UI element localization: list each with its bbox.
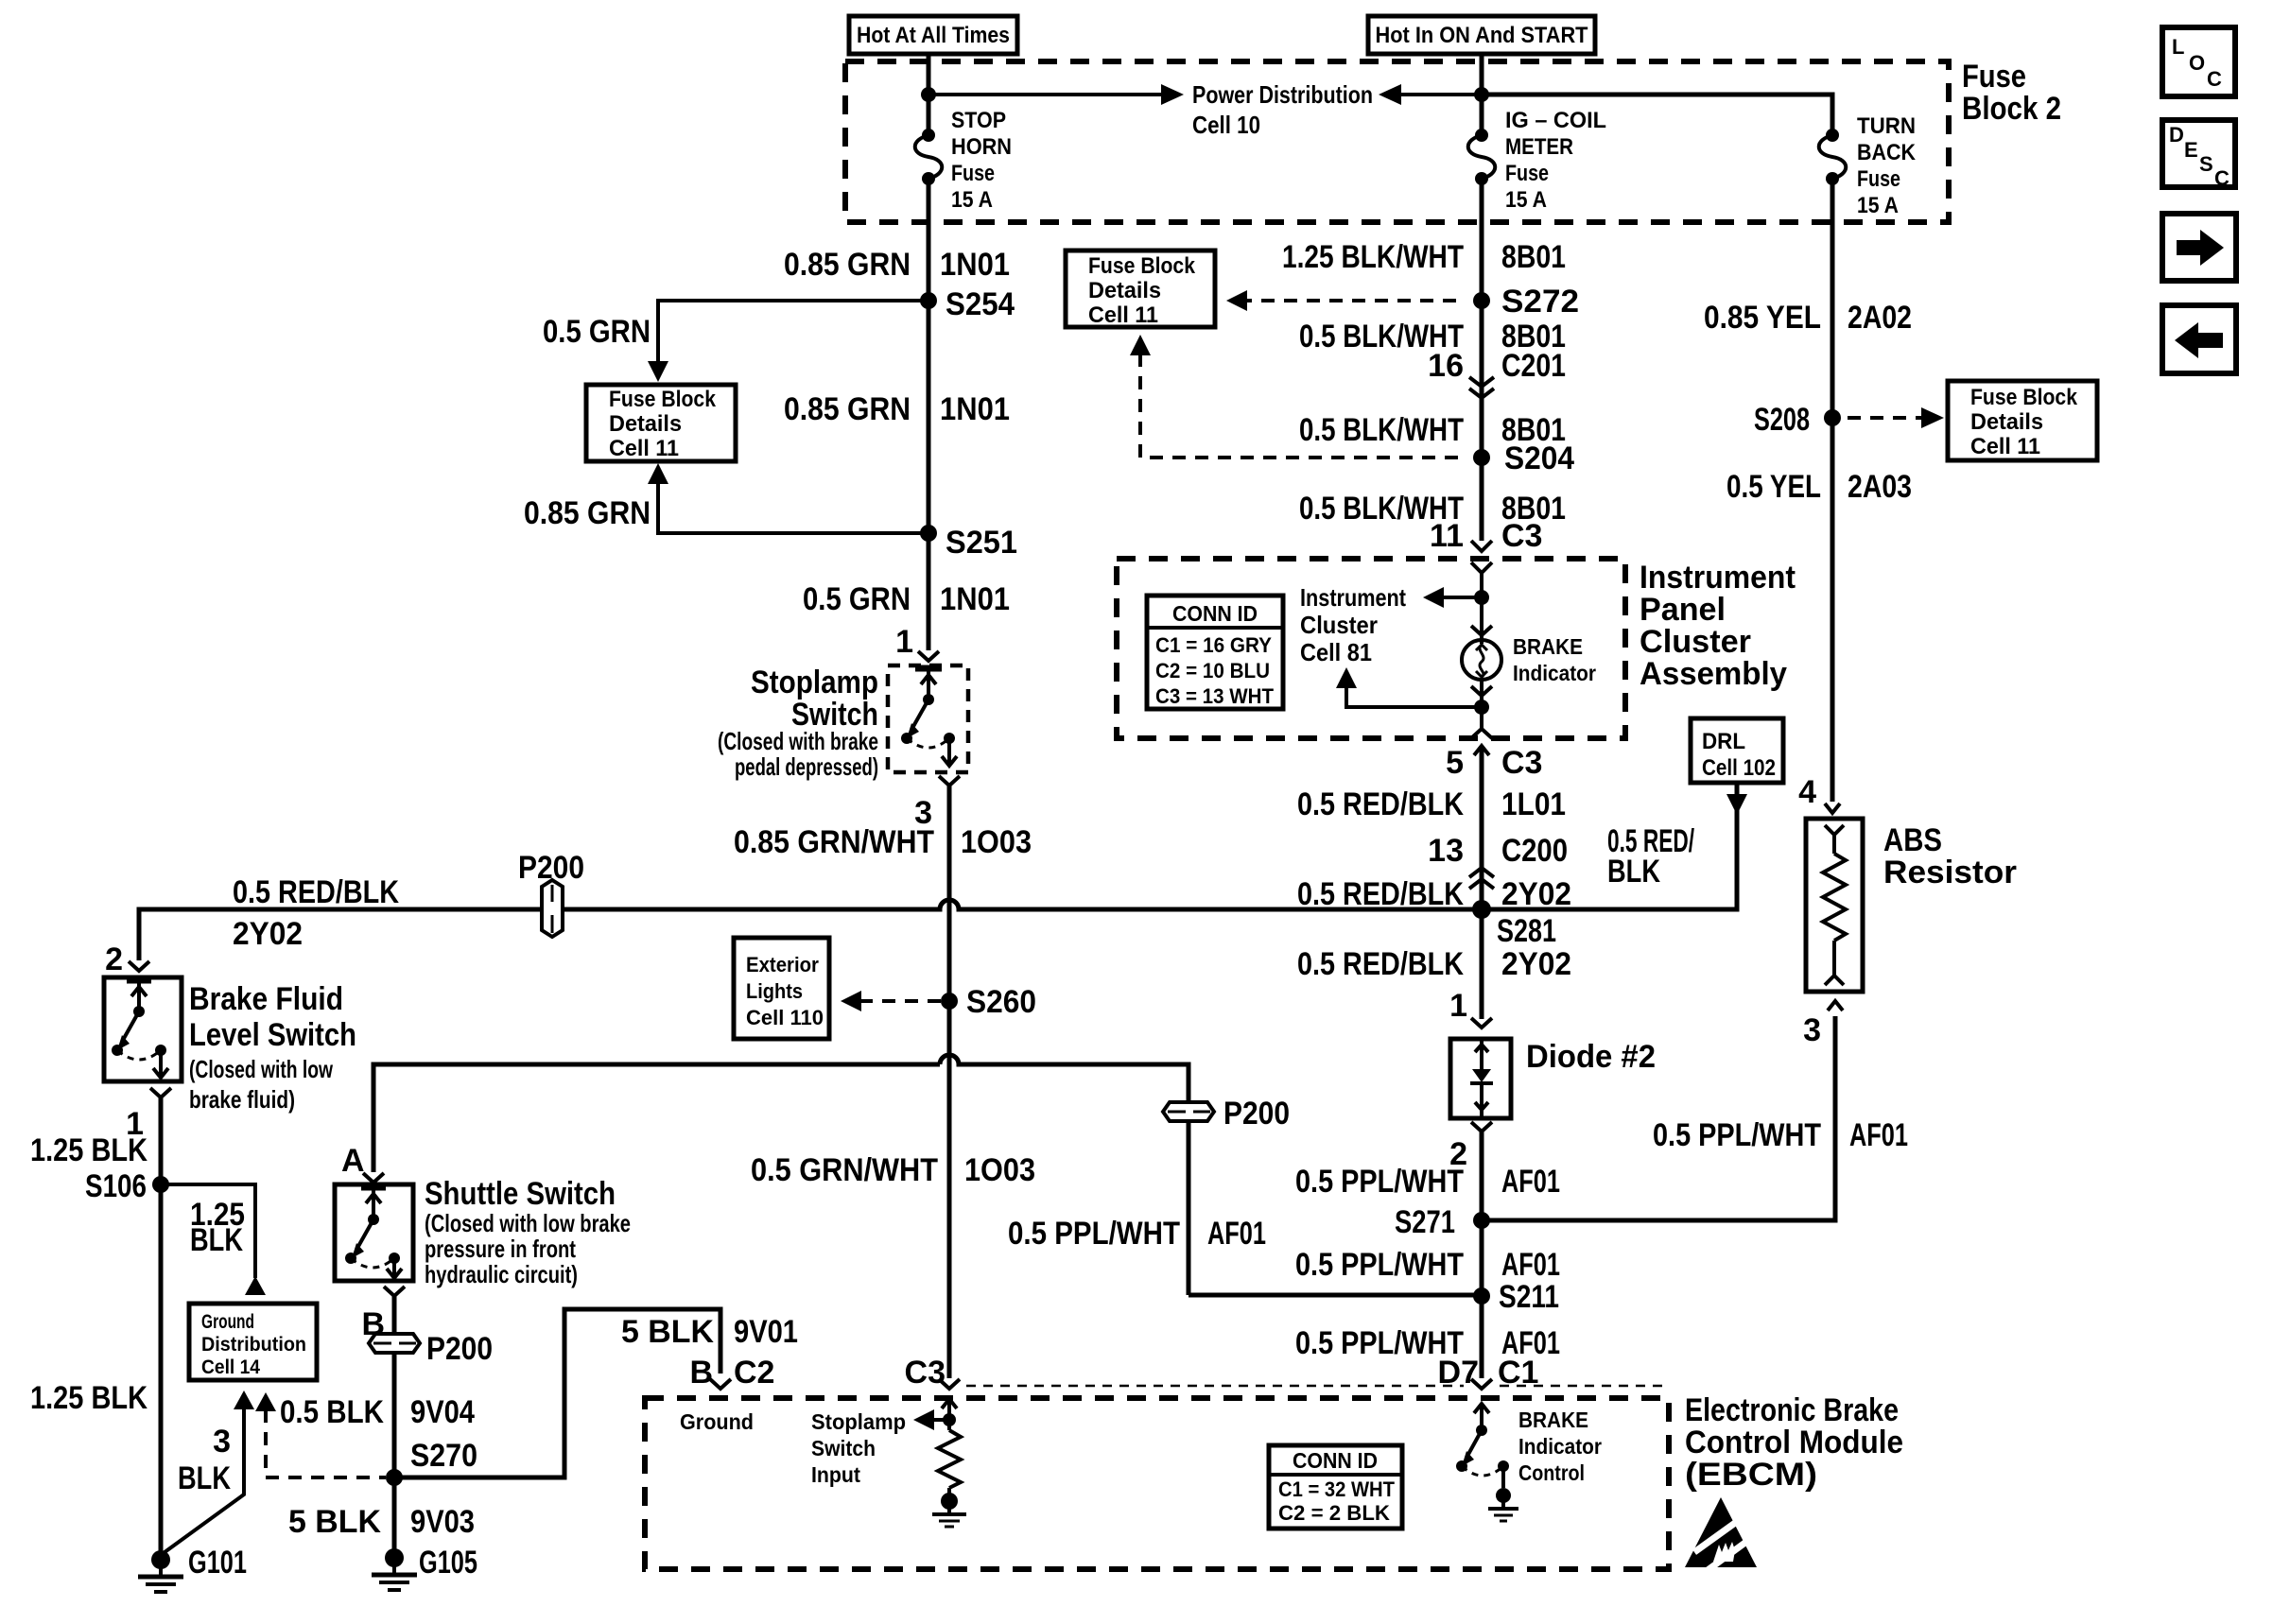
svg-text:1.25 BLK: 1.25 BLK — [30, 1380, 147, 1416]
svg-text:Instrument: Instrument — [1640, 560, 1796, 596]
connector D7 C1 at EBCM — [1438, 1355, 1539, 1391]
svg-text:Brake Fluid: Brake Fluid — [189, 981, 343, 1017]
label 0.5 YEL 2A03 — [1726, 469, 1912, 505]
svg-text:TURN: TURN — [1857, 113, 1916, 139]
node S211 — [1473, 1279, 1559, 1315]
svg-text:BRAKE: BRAKE — [1518, 1408, 1588, 1432]
icon box LOC — [2162, 27, 2235, 96]
wire: stoplamp switch to EBCM C3 (1O03) — [947, 786, 952, 1378]
svg-text:BLK: BLK — [1607, 854, 1660, 890]
svg-text:D: D — [2169, 123, 2184, 147]
reference box CONN ID (cluster) — [1147, 596, 1283, 709]
label 0.5 BLK 9V04 — [280, 1394, 475, 1430]
svg-text:0.85 GRN: 0.85 GRN — [784, 391, 911, 427]
label Power Distribution Cell 10 — [1192, 80, 1373, 139]
label 0.85 GRN 1N01 (between S254 S251) — [784, 391, 1010, 427]
node S106 — [85, 1168, 169, 1204]
wire: S271 branch to ABS resistor — [1482, 1016, 1835, 1220]
wire: S251 branch to Fuse Block Details — [648, 463, 928, 533]
svg-text:Block 2: Block 2 — [1962, 91, 2061, 127]
svg-text:Assembly: Assembly — [1640, 656, 1787, 692]
node S281 — [1472, 900, 1556, 949]
label 0.5 RED/BLK 2Y02 — [233, 874, 399, 952]
svg-text:P200: P200 — [426, 1331, 493, 1367]
fuse STOP HORN 15A — [915, 129, 943, 185]
svg-text:S: S — [2199, 152, 2213, 176]
dashed arrow S272 to Fuse Block Details — [1226, 290, 1456, 311]
svg-text:C1: C1 — [1498, 1355, 1538, 1391]
svg-text:0.85 GRN: 0.85 GRN — [524, 495, 651, 531]
svg-text:15 A: 15 A — [1505, 187, 1547, 213]
node S272 — [1473, 284, 1579, 320]
svg-text:(EBCM): (EBCM) — [1685, 1457, 1817, 1493]
svg-text:0.5 PPL/WHT: 0.5 PPL/WHT — [1295, 1247, 1464, 1283]
svg-text:Hot In ON And START: Hot In ON And START — [1376, 23, 1588, 48]
wire inside cluster — [1480, 573, 1484, 644]
wire: S254 branch to Fuse Block Details — [648, 301, 928, 382]
svg-text:0.5 BLK/WHT: 0.5 BLK/WHT — [1299, 412, 1464, 448]
svg-text:Fuse Block: Fuse Block — [609, 387, 717, 412]
wire: Hot At All Times feed — [927, 54, 931, 134]
svg-text:C2 = 10 BLU: C2 = 10 BLU — [1155, 659, 1270, 682]
svg-text:Control Module: Control Module — [1685, 1425, 1903, 1460]
label 0.5 RED/BLK 1L01 — [1297, 786, 1566, 822]
label IG-COIL METER Fuse 15 A — [1505, 108, 1606, 213]
fuse IG-COIL METER 15A — [1468, 129, 1496, 185]
svg-text:C2: C2 — [734, 1355, 774, 1391]
ground G101 — [138, 1545, 247, 1592]
wire: brake fluid switch to G101 (1.25 BLK) — [159, 1097, 164, 1555]
svg-text:1.25 BLK: 1.25 BLK — [30, 1132, 147, 1168]
label 0.5 PPL/WHT AF01 (P200 branch) — [1008, 1216, 1266, 1252]
node: branch to Power Distribution — [921, 87, 936, 102]
connector P200 inline (on horizontal wire) — [542, 880, 563, 937]
svg-text:Cell 81: Cell 81 — [1300, 638, 1372, 666]
svg-text:P200: P200 — [518, 850, 584, 886]
svg-text:0.5 GRN: 0.5 GRN — [543, 314, 651, 350]
svg-text:5: 5 — [1446, 745, 1464, 781]
label BRAKE Indicator — [1513, 634, 1596, 685]
svg-text:AF01: AF01 — [1849, 1117, 1908, 1153]
svg-text:1O03: 1O03 — [961, 824, 1032, 860]
pin 2 diode — [1449, 1122, 1492, 1172]
stoplamp switch input circuit — [913, 1399, 966, 1527]
wire hop over stoplamp wire and to P200 drop — [940, 1055, 1189, 1295]
svg-text:9V04: 9V04 — [410, 1394, 475, 1430]
label box Hot At All Times — [849, 16, 1017, 54]
svg-text:A: A — [341, 1143, 365, 1179]
svg-text:C201: C201 — [1501, 348, 1566, 384]
svg-text:2: 2 — [105, 942, 123, 977]
svg-text:1: 1 — [895, 624, 913, 660]
wire: main horizontal 0.5 RED/BLK 2Y02 — [139, 783, 1737, 960]
connector arrow below cluster pin 5 — [1474, 746, 1489, 1019]
svg-text:Fuse: Fuse — [1857, 166, 1900, 192]
label 0.5 BLK/WHT 8B01 — [1299, 412, 1566, 448]
label 0.5 GRN/WHT 1O03 — [751, 1152, 1035, 1188]
pin 2 brake fluid level switch — [105, 942, 149, 977]
connector C3 pin 11 — [1430, 518, 1542, 554]
svg-text:Shuttle Switch: Shuttle Switch — [425, 1176, 616, 1212]
svg-text:C3: C3 — [905, 1355, 946, 1391]
instrument panel cluster dashed box — [1117, 559, 1625, 738]
wire: S270 to EBCM B C2 (5 BLK 9V01) — [394, 1309, 720, 1477]
svg-text:9V01: 9V01 — [734, 1314, 798, 1350]
svg-text:CONN ID: CONN ID — [1293, 1448, 1378, 1473]
svg-text:BACK: BACK — [1857, 140, 1917, 165]
svg-text:16: 16 — [1428, 348, 1464, 384]
svg-text:Power Distribution: Power Distribution — [1192, 80, 1373, 109]
svg-text:S106: S106 — [85, 1168, 147, 1204]
svg-text:AF01: AF01 — [1207, 1216, 1266, 1252]
wire: STOP HORN fuse to stoplamp switch (1N01) — [927, 179, 931, 650]
label box Hot In ON And START — [1368, 16, 1595, 54]
svg-text:pressure in front: pressure in front — [425, 1235, 576, 1263]
svg-text:S281: S281 — [1497, 913, 1556, 949]
svg-text:15 A: 15 A — [951, 187, 993, 213]
reference box DRL Cell 102 — [1691, 718, 1783, 783]
label 0.5 BLK/WHT 8B01 — [1299, 491, 1566, 527]
svg-text:S211: S211 — [1499, 1279, 1559, 1315]
svg-text:C1 = 16 GRY: C1 = 16 GRY — [1155, 633, 1272, 657]
pin B shuttle switch — [361, 1287, 405, 1342]
wire: shuttle switch feed (A) — [373, 1064, 940, 1172]
arrow to Instrument Cluster text — [1423, 587, 1482, 608]
svg-text:0.5 RED/BLK: 0.5 RED/BLK — [1297, 946, 1464, 982]
wire: G101 to Ground Distribution (3 BLK) — [161, 1391, 254, 1555]
label 0.5 GRN 1N01 — [803, 581, 1010, 617]
svg-text:S271: S271 — [1395, 1204, 1455, 1240]
svg-text:Details: Details — [1088, 278, 1161, 303]
brake fluid level switch box — [104, 977, 182, 1081]
node S271 — [1395, 1204, 1490, 1240]
svg-text:Cluster: Cluster — [1300, 611, 1378, 639]
svg-text:L: L — [2172, 35, 2184, 59]
svg-text:P200: P200 — [1223, 1096, 1290, 1132]
icon box right arrow — [2162, 214, 2236, 281]
diode symbol — [1470, 1039, 1493, 1118]
label 3 BLK — [178, 1424, 231, 1496]
shuttle switch box — [335, 1184, 413, 1281]
svg-text:Indicator: Indicator — [1513, 661, 1596, 685]
svg-text:S251: S251 — [946, 525, 1017, 561]
label Instrument Cluster Cell 81 — [1300, 583, 1406, 666]
svg-text:Fuse Block: Fuse Block — [1970, 385, 2078, 410]
fuse block 2 dashed box — [845, 61, 1949, 222]
wire: feed to TURN BACK fuse — [1482, 95, 1832, 134]
label 0.85 GRN/WHT 1O03 — [734, 824, 1032, 860]
label 1.25 BLK/WHT 8B01 — [1282, 239, 1566, 275]
wire: from IG wire to Power Distribution arrow — [1401, 93, 1482, 96]
svg-text:AF01: AF01 — [1501, 1164, 1560, 1200]
svg-text:2Y02: 2Y02 — [233, 916, 303, 952]
svg-text:Ground: Ground — [680, 1409, 754, 1434]
shuttle switch internals — [345, 1187, 402, 1278]
svg-text:BRAKE: BRAKE — [1513, 634, 1583, 659]
svg-text:2Y02: 2Y02 — [1501, 946, 1571, 982]
svg-text:Cell 10: Cell 10 — [1192, 111, 1260, 139]
svg-text:1: 1 — [1449, 988, 1467, 1024]
svg-text:0.5 BLK: 0.5 BLK — [280, 1394, 384, 1430]
svg-text:(Closed with low: (Closed with low — [189, 1055, 334, 1083]
label Shuttle Switch — [425, 1176, 631, 1288]
svg-text:3: 3 — [213, 1424, 231, 1460]
wire: shuttle switch to G105 — [392, 1296, 397, 1553]
svg-text:Stoplamp: Stoplamp — [811, 1409, 906, 1434]
svg-text:1O03: 1O03 — [964, 1152, 1035, 1188]
svg-text:Diode #2: Diode #2 — [1526, 1039, 1656, 1075]
ground G105 — [372, 1545, 477, 1590]
svg-text:1N01: 1N01 — [940, 247, 1010, 283]
connector B C2 at EBCM — [689, 1355, 774, 1391]
svg-text:2A02: 2A02 — [1848, 300, 1912, 336]
node: cluster branch — [1474, 590, 1489, 605]
svg-text:0.5 GRN: 0.5 GRN — [803, 581, 911, 617]
svg-text:BLK: BLK — [178, 1460, 231, 1496]
svg-text:Control: Control — [1518, 1460, 1585, 1485]
reference box CONN ID (EBCM) — [1269, 1445, 1402, 1529]
node S270 — [386, 1438, 477, 1486]
dashed wire: Ground Distribution to S270 — [255, 1392, 386, 1477]
label 1.25 BLK (two lines) — [190, 1197, 245, 1258]
svg-text:Instrument: Instrument — [1300, 583, 1406, 612]
diode #2 box — [1450, 1039, 1511, 1118]
svg-text:DRL: DRL — [1702, 729, 1745, 754]
svg-text:Distribution: Distribution — [201, 1334, 306, 1356]
ESD symbol — [1685, 1497, 1761, 1573]
wire: P200 branch into S211 — [1189, 1293, 1482, 1298]
node S208 — [1754, 402, 1841, 438]
node S260 — [941, 984, 1036, 1020]
svg-text:3: 3 — [1803, 1012, 1821, 1048]
svg-text:Exterior: Exterior — [746, 953, 819, 976]
label 5 BLK 9V01 — [621, 1314, 798, 1350]
svg-text:Fuse: Fuse — [1505, 161, 1549, 186]
node: lower cluster branch — [1474, 700, 1489, 715]
pin 3 ABS resistor — [1803, 1001, 1843, 1048]
svg-text:Lights: Lights — [746, 979, 803, 1003]
connector C201 pin 16 — [1428, 348, 1566, 398]
svg-text:1L01: 1L01 — [1501, 786, 1566, 822]
connector receptacle at cluster entry — [1471, 562, 1492, 573]
svg-text:AF01: AF01 — [1501, 1247, 1560, 1283]
svg-text:STOP: STOP — [951, 108, 1006, 133]
dashed arrow S260 to Exterior Lights — [841, 991, 941, 1011]
brake indicator control switch — [1456, 1404, 1518, 1521]
fuse TURN BACK 15A — [1819, 129, 1847, 185]
connector C200 pin 13 — [1428, 833, 1568, 889]
node S251 — [920, 525, 1017, 561]
svg-text:Stoplamp: Stoplamp — [751, 665, 878, 700]
reference box Fuse Block Details Cell 11 (right) — [1948, 381, 2097, 460]
svg-text:Cell 11: Cell 11 — [1970, 434, 2040, 459]
svg-text:0.85 YEL: 0.85 YEL — [1704, 300, 1821, 336]
label 0.5 RED/ BLK — [1607, 823, 1694, 890]
svg-text:0.5 PPL/WHT: 0.5 PPL/WHT — [1008, 1216, 1180, 1252]
reference box Ground Distribution Cell 14 — [189, 1304, 317, 1380]
svg-text:11: 11 — [1430, 518, 1464, 554]
svg-text:Details: Details — [1970, 409, 2043, 435]
EBCM dashed box — [645, 1398, 1669, 1569]
svg-text:Ground: Ground — [201, 1311, 254, 1333]
svg-text:O: O — [2189, 51, 2205, 75]
dashed reference S204 to Fuse Block Details — [1130, 335, 1464, 458]
stoplamp switch dashed box — [888, 665, 968, 772]
label 0.5 PPL/WHT AF01 (ABS branch) — [1653, 1117, 1908, 1153]
connector receptacle at cluster exit — [1471, 729, 1492, 738]
brake fluid level switch internals — [112, 980, 168, 1078]
label 0.5 PPL/WHT AF01 (above D7) — [1295, 1325, 1560, 1361]
pin 1 diode — [1449, 988, 1492, 1028]
node S254 — [920, 286, 1015, 322]
node S204 — [1473, 441, 1574, 476]
svg-text:E: E — [2184, 138, 2198, 162]
thin connector line inside EBCM — [966, 1385, 1662, 1388]
svg-text:S272: S272 — [1501, 284, 1579, 320]
svg-text:2Y02: 2Y02 — [1501, 876, 1571, 912]
svg-text:Switch: Switch — [811, 1436, 876, 1460]
svg-text:C1 = 32 WHT: C1 = 32 WHT — [1278, 1477, 1396, 1501]
pin A shuttle switch — [341, 1143, 384, 1183]
svg-text:13: 13 — [1428, 833, 1464, 869]
BRAKE indicator lamp — [1462, 640, 1501, 680]
wire: to Power Distribution arrow — [928, 93, 1172, 96]
svg-text:0.5 PPL/WHT: 0.5 PPL/WHT — [1295, 1164, 1464, 1200]
svg-text:2A03: 2A03 — [1848, 469, 1912, 505]
svg-text:0.5 YEL: 0.5 YEL — [1726, 469, 1821, 505]
svg-text:5 BLK: 5 BLK — [288, 1504, 381, 1540]
svg-text:5 BLK: 5 BLK — [621, 1314, 714, 1350]
label pin 5 C3 — [1446, 745, 1542, 781]
label TURN BACK Fuse 15 A — [1857, 113, 1917, 218]
wire: TURN BACK fuse to ABS resistor (2A02/2A03) — [1831, 179, 1835, 802]
label 0.5 RED/BLK 2Y02 (below S281) — [1297, 946, 1571, 982]
svg-text:(Closed with low brake: (Closed with low brake — [425, 1209, 631, 1237]
svg-text:Cell 110: Cell 110 — [746, 1006, 824, 1029]
label ABS Resistor — [1883, 822, 2017, 890]
svg-text:D7: D7 — [1438, 1355, 1479, 1391]
ABS resistor box — [1806, 819, 1863, 992]
svg-text:C: C — [2214, 166, 2230, 190]
svg-text:C200: C200 — [1501, 833, 1568, 869]
svg-text:1N01: 1N01 — [940, 581, 1010, 617]
svg-text:ABS: ABS — [1883, 822, 1942, 858]
svg-text:Cell 14: Cell 14 — [201, 1356, 260, 1378]
svg-text:Indicator: Indicator — [1518, 1434, 1602, 1459]
svg-text:1N01: 1N01 — [940, 391, 1010, 427]
svg-text:1.25 BLK/WHT: 1.25 BLK/WHT — [1282, 239, 1464, 275]
label 0.85 YEL 2A02 — [1704, 300, 1912, 336]
label 0.5 PPL/WHT AF01 (below S271) — [1295, 1247, 1560, 1283]
icon box left arrow — [2162, 305, 2236, 373]
svg-text:brake fluid): brake fluid) — [189, 1085, 295, 1114]
svg-text:0.85 GRN: 0.85 GRN — [784, 247, 911, 283]
reference box Fuse Block Details Cell 11 (center) — [1066, 251, 1215, 328]
svg-text:Electronic Brake: Electronic Brake — [1685, 1392, 1899, 1428]
svg-text:0.5 GRN/WHT: 0.5 GRN/WHT — [751, 1152, 938, 1188]
svg-text:B: B — [689, 1355, 713, 1391]
label 0.5 RED/BLK 2Y02 — [1297, 876, 1571, 912]
stoplamp switch internals — [901, 668, 957, 766]
label 0.5 PPL/WHT AF01 — [1295, 1164, 1560, 1200]
svg-text:S204: S204 — [1504, 441, 1574, 476]
svg-text:METER: METER — [1505, 134, 1573, 160]
reference box Fuse Block Details Cell 11 (left) — [586, 385, 736, 461]
svg-text:G101: G101 — [188, 1545, 247, 1581]
svg-text:C3: C3 — [1501, 518, 1542, 554]
connector C3 at EBCM — [905, 1355, 960, 1391]
svg-text:9V03: 9V03 — [410, 1504, 475, 1540]
svg-text:IG – COIL: IG – COIL — [1505, 108, 1606, 133]
svg-text:C2 = 2 BLK: C2 = 2 BLK — [1278, 1501, 1390, 1525]
svg-text:C3 = 13 WHT: C3 = 13 WHT — [1155, 684, 1275, 708]
wire: Hot In ON And START feed — [1480, 54, 1484, 134]
dashed arrow S208 to Fuse Block Details — [1848, 407, 1944, 428]
svg-text:Resistor: Resistor — [1883, 855, 2017, 890]
svg-text:S254: S254 — [946, 286, 1015, 322]
svg-text:S260: S260 — [966, 984, 1036, 1020]
svg-text:0.85 GRN/WHT: 0.85 GRN/WHT — [734, 824, 934, 860]
pin 1 brake fluid level switch — [126, 1088, 171, 1142]
label Stoplamp Switch Input — [811, 1409, 906, 1487]
reference box Exterior Lights Cell 110 — [734, 938, 829, 1039]
label 0.5 BLK/WHT 8B01 — [1299, 319, 1566, 354]
wire: S106 branch to Ground Distribution — [161, 1184, 266, 1295]
svg-text:Fuse: Fuse — [951, 161, 995, 186]
arrow to Cell 81 from below — [1336, 667, 1482, 707]
label Brake Fluid Level Switch — [189, 981, 356, 1114]
connector chevron below indicator — [1471, 686, 1492, 696]
ABS resistor symbol — [1823, 825, 1846, 985]
svg-text:Fuse Block: Fuse Block — [1088, 253, 1196, 279]
svg-text:Cell 11: Cell 11 — [1088, 302, 1158, 328]
label Fuse Block 2 — [1962, 59, 2061, 127]
svg-text:8B01: 8B01 — [1501, 239, 1566, 275]
icon box DESC — [2162, 120, 2235, 190]
label 0.85 GRN 1N01 (above S254) — [784, 247, 1010, 283]
svg-text:4: 4 — [1798, 774, 1816, 810]
svg-text:Hot At All Times: Hot At All Times — [857, 23, 1010, 48]
pin 1 stoplamp switch — [895, 624, 939, 661]
svg-text:CONN ID: CONN ID — [1172, 601, 1258, 626]
svg-text:0.5 PPL/WHT: 0.5 PPL/WHT — [1653, 1117, 1821, 1153]
label 5 BLK 9V03 — [288, 1504, 475, 1540]
label Instrument Panel Cluster Assembly — [1640, 560, 1796, 692]
connector P200 inline (on diode branch wire) — [1163, 1096, 1290, 1132]
svg-text:Panel: Panel — [1640, 592, 1726, 628]
label STOP HORN Fuse 15 A — [951, 108, 1012, 213]
svg-text:C3: C3 — [1501, 745, 1542, 781]
svg-text:Level Switch: Level Switch — [189, 1017, 356, 1053]
label Electronic Brake Control Module (EBCM) — [1685, 1392, 1903, 1493]
svg-text:S208: S208 — [1754, 402, 1810, 438]
svg-text:hydraulic circuit): hydraulic circuit) — [425, 1260, 578, 1288]
connector P200 inline (on shuttle ground wire) — [369, 1331, 493, 1367]
wire: diode to EBCM D7 (AF01) — [1480, 1132, 1484, 1378]
label Stoplamp Switch — [718, 665, 878, 781]
svg-text:Cell 11: Cell 11 — [609, 436, 679, 461]
svg-text:Input: Input — [811, 1462, 860, 1487]
svg-text:BLK: BLK — [190, 1222, 243, 1258]
label BRAKE Indicator Control — [1518, 1408, 1602, 1485]
connector chevron above indicator — [1471, 626, 1492, 635]
arrow from DRL box — [1726, 794, 1747, 815]
pin 4 ABS resistor — [1798, 774, 1840, 813]
wire below indicator — [1480, 680, 1484, 728]
svg-text:0.5 RED/BLK: 0.5 RED/BLK — [233, 874, 399, 910]
svg-text:Cluster: Cluster — [1640, 624, 1751, 660]
svg-text:G105: G105 — [419, 1545, 477, 1581]
